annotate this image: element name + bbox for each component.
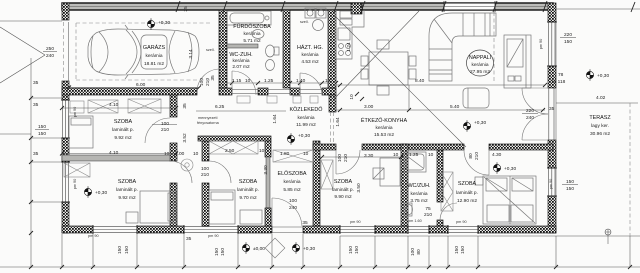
- svg-text:15.53 m2: 15.53 m2: [374, 132, 394, 138]
- svg-text:35: 35: [33, 151, 39, 157]
- svg-text:4.30: 4.30: [492, 152, 502, 158]
- svg-text:FÜRDŐSZOBA: FÜRDŐSZOBA: [233, 23, 271, 30]
- svg-text:9.90 m2: 9.90 m2: [334, 194, 352, 200]
- svg-text:35: 35: [33, 102, 39, 108]
- basin in bath: [252, 30, 264, 39]
- svg-text:10: 10: [303, 151, 309, 157]
- corridor south wall left part: [198, 136, 271, 141]
- right exterior wall piers: [548, 3, 556, 233]
- door size labels: [161, 121, 432, 226]
- svg-text:laminált p.: laminált p.: [116, 187, 138, 193]
- svg-text:mennyezeti: mennyezeti: [198, 116, 218, 120]
- left exterior wall piers: [62, 3, 69, 233]
- svg-text:25: 25: [183, 6, 189, 12]
- label bedroom 9.90: [332, 179, 354, 200]
- west window lower bedroom: [62, 162, 64, 202]
- svg-text:±0,00: ±0,00: [253, 246, 265, 252]
- wardrobe bedroom 9.90: [321, 160, 333, 189]
- garage dashed layout lines: [76, 22, 212, 24]
- door bedroom 9.70: [209, 161, 231, 183]
- svg-text:150: 150: [348, 246, 354, 254]
- wardrobes upper west bedroom: [70, 99, 161, 113]
- label hazt hg: [297, 44, 323, 65]
- svg-text:pm 90: pm 90: [208, 234, 219, 238]
- svg-text:10: 10: [325, 78, 331, 84]
- label etkezo-konyha: [361, 117, 408, 138]
- svg-text:150: 150: [566, 179, 574, 185]
- label upper west bedroom: [112, 119, 134, 141]
- terrace door size: [522, 108, 538, 121]
- svg-text:NAPPALI: NAPPALI: [469, 55, 491, 61]
- eloszoba east wall: [313, 141, 320, 226]
- front door eloszoba: [272, 198, 302, 226]
- label lower west bedroom: [116, 179, 138, 201]
- svg-text:35: 35: [182, 103, 188, 109]
- door bedroom 9.90: [336, 150, 360, 174]
- svg-text:lagy ker.: lagy ker.: [591, 123, 609, 129]
- bath tub: [227, 11, 271, 25]
- interior dimension lines: [62, 85, 545, 157]
- svg-text:210: 210: [474, 152, 480, 160]
- garage gate symbol: [0, 27, 45, 83]
- terrace lines: [556, 103, 638, 236]
- sight lines: [334, 15, 466, 147]
- svg-text:2.50: 2.50: [225, 148, 235, 154]
- svg-text:pm 90: pm 90: [73, 179, 77, 190]
- bath block east wall: [328, 10, 336, 88]
- marker outside +0.30: [292, 242, 315, 254]
- wc/szoba1290 wall: [437, 150, 443, 202]
- svg-text:+0,30: +0,30: [298, 133, 310, 139]
- garage east wall: [219, 10, 227, 88]
- svg-text:240: 240: [289, 205, 297, 211]
- bedroom2 west wall (s970): [202, 141, 209, 161]
- label terrace: [589, 115, 611, 137]
- east window bedroom 150/150: [548, 168, 550, 196]
- svg-text:1.64: 1.64: [272, 114, 278, 124]
- svg-text:9.70 m2: 9.70 m2: [239, 195, 257, 201]
- eloszoba west wall: [265, 141, 271, 157]
- basin wc/zuh: [404, 203, 413, 216]
- bed lower west bedroom: [126, 191, 176, 223]
- svg-text:150: 150: [460, 246, 466, 254]
- svg-text:100: 100: [199, 78, 205, 86]
- ceiling lamp circle corridor: [181, 159, 193, 171]
- svg-text:pm 90: pm 90: [350, 220, 361, 224]
- svg-text:150: 150: [38, 124, 46, 130]
- svg-text:3.00: 3.00: [364, 104, 374, 110]
- bed bedroom 9.70: [209, 190, 262, 224]
- svg-text:5.71 m2: 5.71 m2: [243, 38, 261, 44]
- bath block middle wall: [283, 10, 290, 88]
- label bedroom 12.90: [456, 181, 478, 204]
- wc + bidet in wc-zuh: [266, 45, 280, 71]
- svg-text:220: 220: [564, 32, 572, 38]
- svg-text:SZOBA: SZOBA: [458, 181, 477, 187]
- svg-text:25: 25: [359, 4, 365, 10]
- wardrobe lower west bedroom: [64, 163, 90, 177]
- west window upper bedroom: [62, 100, 64, 138]
- svg-text:35: 35: [302, 220, 308, 226]
- svg-text:150: 150: [214, 248, 220, 256]
- svg-text:250: 250: [46, 46, 54, 52]
- svg-text:pm 1.60: pm 1.60: [408, 219, 422, 223]
- tall wardrobe bedroom 12.90: [441, 172, 453, 211]
- svg-text:100: 100: [201, 166, 209, 172]
- svg-text:pm 90: pm 90: [539, 39, 543, 50]
- svg-text:kerámia: kerámia: [243, 31, 260, 37]
- svg-text:1.00: 1.00: [175, 151, 185, 157]
- kitchen west wall stub: [329, 95, 336, 112]
- svg-text:30.96 m2: 30.96 m2: [590, 131, 610, 137]
- marker outside ±0.00: [242, 242, 265, 254]
- door upper west bedroom: [145, 118, 170, 143]
- svg-text:150: 150: [564, 39, 572, 45]
- svg-text:laminált p.: laminált p.: [237, 187, 259, 193]
- garage gate size: [43, 46, 57, 59]
- east window living room 220/150: [548, 22, 550, 66]
- svg-text:150: 150: [117, 246, 123, 254]
- svg-text:fénycsatorna: fénycsatorna: [197, 121, 220, 125]
- svg-text:150: 150: [566, 186, 574, 192]
- garage south wall / middle wall: [62, 88, 336, 95]
- svg-text:10: 10: [349, 94, 355, 100]
- svg-text:4.53 m2: 4.53 m2: [301, 59, 319, 65]
- svg-text:35: 35: [33, 80, 39, 86]
- door wc-zuh (bath block): [232, 71, 256, 95]
- svg-text:10: 10: [193, 151, 199, 157]
- svg-text:9.92 m2: 9.92 m2: [118, 195, 136, 201]
- terrace corner level symbol: [605, 229, 611, 244]
- svg-text:pm 90: pm 90: [456, 220, 467, 224]
- svg-text:kerámia: kerámia: [283, 179, 300, 185]
- washing machines hazt.hg: [305, 8, 326, 31]
- svg-text:6.25: 6.25: [215, 104, 225, 110]
- svg-text:3.75 m2: 3.75 m2: [410, 198, 428, 204]
- label nappali with ellipse: [467, 50, 494, 76]
- svg-text:laminált p.: laminált p.: [332, 187, 354, 193]
- svg-text:15 118: 15 118: [551, 79, 566, 85]
- kitchen counter: [336, 10, 364, 59]
- bottom exterior wall segments: [61, 22, 557, 234]
- svg-text:+0,30: +0,30: [303, 246, 315, 252]
- svg-text:kerámia: kerámia: [471, 62, 488, 68]
- svg-text:ELŐSZOBA: ELŐSZOBA: [277, 170, 306, 177]
- diamond terrain symbol: [265, 238, 285, 258]
- svg-text:210: 210: [343, 154, 349, 162]
- svg-text:100: 100: [161, 121, 169, 127]
- bed upper west bedroom: [69, 116, 93, 148]
- svg-text:80: 80: [468, 153, 474, 159]
- svg-text:4.10: 4.10: [109, 150, 119, 156]
- label eloszoba: [277, 170, 306, 193]
- svg-text:kerámia: kerámia: [232, 58, 249, 64]
- svg-text:+0,30: +0,30: [95, 190, 107, 196]
- svg-text:150: 150: [354, 246, 360, 254]
- svg-text:+0,30: +0,30: [158, 20, 170, 26]
- shower wc/zuh: [404, 152, 426, 172]
- svg-text:10: 10: [259, 148, 265, 154]
- svg-text:35: 35: [549, 106, 555, 112]
- svg-text:35: 35: [186, 236, 192, 242]
- svg-text:210: 210: [201, 172, 209, 178]
- svg-text:KÖZLEKEDŐ: KÖZLEKEDŐ: [290, 106, 323, 113]
- partition between the two west bedrooms: [62, 155, 170, 161]
- label bathroom: [233, 23, 271, 44]
- svg-text:150: 150: [124, 246, 130, 254]
- marker lower west bedroom +0.30: [84, 186, 107, 198]
- door wc/zuh (in east wall): [440, 203, 457, 220]
- label wc/zuh: [407, 183, 430, 204]
- szoba990/wc wall: [401, 144, 408, 226]
- door garage-corridor: [197, 69, 220, 92]
- top exterior wall: [62, 1, 553, 14]
- svg-text:18.81 m2: 18.81 m2: [144, 61, 164, 67]
- west window size: [35, 124, 49, 137]
- svg-text:100: 100: [337, 154, 343, 162]
- svg-text:WC/ZUH.: WC/ZUH.: [407, 183, 430, 189]
- svg-text:240: 240: [46, 53, 54, 59]
- svg-text:+0,30: +0,30: [474, 120, 486, 126]
- garage door opening (dashed): [63, 22, 65, 81]
- svg-text:150: 150: [454, 246, 460, 254]
- door lower west bedroom: [170, 161, 192, 183]
- bottom dim line: [0, 234, 640, 267]
- svg-text:27.95 m2: 27.95 m2: [470, 69, 490, 75]
- svg-text:4.02: 4.02: [596, 95, 606, 101]
- svg-text:+0,30: +0,30: [597, 73, 609, 79]
- svg-text:pm 90: pm 90: [549, 179, 553, 190]
- double bed bedroom 12.90: [475, 176, 536, 224]
- svg-text:GARÁZS: GARÁZS: [143, 44, 166, 51]
- label kozlekedo: [290, 106, 323, 128]
- svg-text:210: 210: [161, 127, 169, 133]
- svg-text:3.50: 3.50: [356, 183, 362, 193]
- car in garage: [88, 25, 199, 79]
- svg-text:laminált p.: laminált p.: [456, 190, 478, 196]
- svg-text:pm 90: pm 90: [88, 234, 99, 238]
- svg-text:100: 100: [410, 248, 416, 256]
- chimney block on top wall: [351, 3, 362, 14]
- svg-text:6.00: 6.00: [136, 82, 146, 88]
- svg-text:1.40: 1.40: [296, 78, 306, 84]
- svg-text:150: 150: [220, 248, 226, 256]
- svg-text:75: 75: [425, 206, 431, 212]
- svg-text:1.64: 1.64: [335, 117, 341, 127]
- east window size: [560, 32, 576, 45]
- dimension slash ticks bottom: [29, 96, 632, 269]
- marker bedroom 12.90 +0.30: [493, 162, 516, 174]
- front door threshold: [272, 226, 303, 228]
- svg-text:szell.: szell.: [206, 48, 215, 52]
- ticks on top wall: [176, 1, 547, 12]
- bottom rotated window sizes: [117, 246, 466, 256]
- svg-text:11.99 m2: 11.99 m2: [296, 122, 316, 128]
- svg-text:SZOBA: SZOBA: [334, 179, 353, 185]
- door hazt.hg: [300, 73, 322, 95]
- svg-text:szell.: szell.: [300, 20, 309, 24]
- corridor wardrobe (in bedroom 9.70): [209, 141, 258, 154]
- svg-text:3.30: 3.30: [263, 165, 269, 175]
- svg-text:1.80: 1.80: [280, 151, 290, 157]
- label garage: [143, 44, 166, 67]
- eloszoba cabinet: [273, 150, 313, 162]
- svg-text:100: 100: [289, 198, 297, 204]
- dining table: [361, 40, 416, 95]
- svg-text:10: 10: [245, 78, 251, 84]
- svg-text:220: 220: [526, 108, 534, 114]
- east bedroom window size: [562, 179, 578, 192]
- terrace double door: [522, 88, 554, 140]
- svg-text:150: 150: [38, 131, 46, 137]
- svg-text:3.30: 3.30: [364, 153, 374, 159]
- svg-text:+0,30: +0,30: [504, 166, 516, 172]
- svg-text:WC-ZUH.: WC-ZUH.: [229, 52, 252, 58]
- label bedroom 9.70: [237, 179, 259, 201]
- svg-text:kerámia: kerámia: [301, 52, 318, 58]
- svg-text:kerámia: kerámia: [297, 115, 314, 121]
- svg-text:1.24: 1.24: [346, 42, 352, 52]
- svg-text:3.52: 3.52: [182, 133, 188, 143]
- svg-text:1.25: 1.25: [264, 78, 274, 84]
- marker dining +0.30: [463, 120, 486, 132]
- svg-text:35: 35: [210, 75, 216, 81]
- radiators below mid wall: [237, 96, 318, 103]
- svg-text:10: 10: [164, 151, 170, 157]
- svg-text:80: 80: [416, 249, 422, 255]
- left wing east wall: [170, 95, 177, 226]
- svg-text:9.92 m2: 9.92 m2: [114, 135, 132, 141]
- south windows: [93, 227, 478, 233]
- svg-text:SZOBA: SZOBA: [114, 119, 133, 125]
- svg-text:78: 78: [558, 72, 564, 78]
- svg-text:3.14: 3.14: [188, 49, 194, 59]
- svg-text:10: 10: [428, 152, 434, 158]
- svg-text:240: 240: [526, 115, 534, 121]
- svg-text:8.40: 8.40: [415, 78, 425, 84]
- svg-text:laminált p.: laminált p.: [112, 127, 134, 133]
- door bedroom 12.90: [464, 150, 489, 175]
- partition bath / wc-zuh: [227, 44, 258, 48]
- svg-text:5.85 m2: 5.85 m2: [283, 187, 301, 193]
- desk + chair bedroom 9.90: [373, 158, 400, 186]
- svg-text:TERASZ: TERASZ: [589, 115, 611, 121]
- svg-text:210: 210: [424, 212, 432, 218]
- svg-text:2.07 m2: 2.07 m2: [232, 64, 250, 70]
- svg-text:5.40: 5.40: [450, 104, 460, 110]
- tv sideboard: [504, 35, 531, 88]
- svg-text:1.15: 1.15: [232, 78, 242, 84]
- svg-text:4.10: 4.10: [109, 102, 119, 108]
- svg-text:1.25: 1.25: [409, 152, 419, 158]
- svg-text:12.90 m2: 12.90 m2: [457, 198, 477, 204]
- svg-text:kerámia: kerámia: [375, 125, 392, 131]
- window in top wall (living room): [444, 3, 495, 10]
- marker garage +0.30: [147, 18, 170, 30]
- label wc-zuh small: [229, 52, 252, 70]
- svg-text:SZOBA: SZOBA: [239, 179, 258, 185]
- marker terrace +0.30: [586, 69, 609, 81]
- svg-text:pm 90: pm 90: [73, 107, 77, 118]
- armchair / small table: [463, 88, 489, 108]
- left dim line: [0, 21, 62, 268]
- svg-text:10: 10: [393, 152, 399, 158]
- svg-text:kerámia: kerámia: [145, 53, 162, 59]
- svg-text:ÉTKEZŐ-KONYHA: ÉTKEZŐ-KONYHA: [361, 117, 408, 124]
- svg-text:HÁZT. HG.: HÁZT. HG.: [297, 44, 323, 51]
- corridor south wall right part with door gaps: [313, 144, 553, 150]
- svg-text:SZOBA: SZOBA: [118, 179, 137, 185]
- corner sofa living room: [429, 13, 496, 81]
- marker corridor +0.30: [287, 133, 310, 145]
- svg-text:kerámia: kerámia: [410, 191, 427, 197]
